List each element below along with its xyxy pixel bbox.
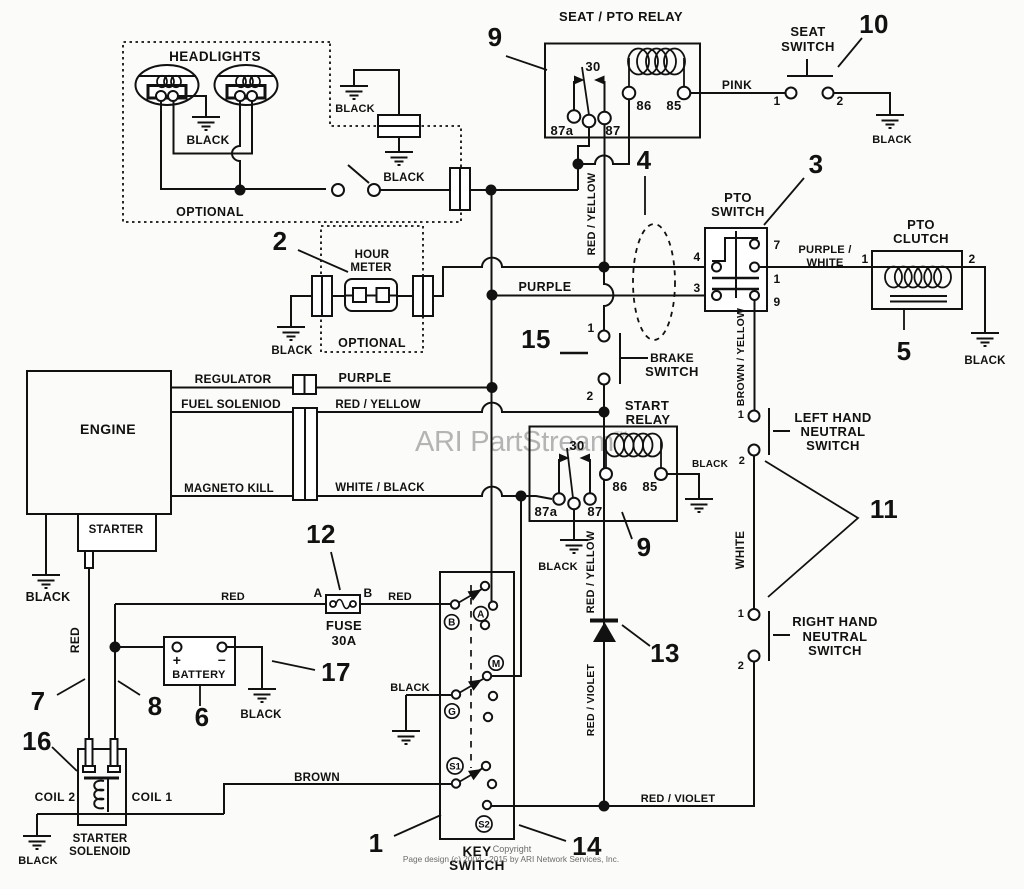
junction purple tap (487, 290, 498, 301)
svg-text:1: 1 (861, 252, 868, 266)
svg-text:BROWN / YELLOW: BROWN / YELLOW (735, 308, 747, 407)
svg-text:REGULATOR: REGULATOR (195, 372, 272, 386)
pto clutch coil (872, 267, 962, 288)
pointer 12 fuse (331, 552, 340, 590)
junction white/black M (516, 491, 527, 502)
svg-text:SWITCH: SWITCH (808, 643, 862, 658)
svg-text:87a: 87a (535, 504, 558, 519)
brake switch terminal 2 (599, 374, 610, 385)
svg-text:WHITE / BLACK: WHITE / BLACK (335, 482, 425, 494)
svg-text:2: 2 (836, 94, 843, 108)
left neutral switch lever (769, 408, 790, 455)
svg-text:PINK: PINK (722, 78, 752, 92)
svg-text:BLACK: BLACK (240, 709, 282, 721)
svg-text:4: 4 (693, 250, 700, 264)
wire switch to connector (380, 189, 450, 191)
svg-text:FUEL SOLENIOD: FUEL SOLENIOD (181, 397, 281, 411)
svg-text:RED / VIOLET: RED / VIOLET (641, 793, 716, 805)
svg-text:+: + (173, 652, 182, 668)
headlight lamp right (215, 65, 278, 105)
connector regulator (293, 375, 316, 394)
brake switch terminal 1 (599, 331, 610, 342)
wire start relay 30 to ground (573, 509, 575, 539)
svg-text:1: 1 (738, 608, 745, 620)
start relay coil (605, 434, 662, 469)
key switch spare contact 4 (488, 780, 496, 788)
pointer 5 clutch (903, 309, 905, 330)
svg-text:B: B (448, 618, 455, 629)
svg-text:10: 10 (859, 9, 889, 39)
wire right lamp hop over cross wire (232, 101, 240, 189)
right neutral switch terminal 1 (749, 609, 760, 620)
ground headlight black (192, 117, 220, 130)
seat relay coil (623, 49, 691, 100)
svg-text:–: – (218, 651, 226, 667)
svg-text:RELAY: RELAY (626, 412, 671, 427)
svg-text:BLACK: BLACK (538, 561, 578, 573)
svg-text:ENGINE: ENGINE (80, 421, 136, 437)
wire junction down to bus (577, 164, 579, 190)
svg-text:COIL 1: COIL 1 (132, 790, 173, 804)
pointer 6 battery (199, 686, 201, 706)
right neutral switch terminal 2 (749, 651, 760, 662)
svg-text:30A: 30A (331, 633, 356, 648)
svg-text:SWITCH: SWITCH (645, 364, 699, 379)
wire seat relay 86 jog with hop (578, 100, 629, 164)
wire headlight bus (161, 188, 326, 190)
svg-text:PURPLE: PURPLE (338, 371, 391, 385)
svg-text:BLACK: BLACK (383, 172, 425, 184)
key switch box (440, 572, 514, 839)
svg-text:S1: S1 (449, 762, 461, 773)
svg-text:A: A (313, 586, 322, 600)
svg-text:S2: S2 (478, 820, 490, 831)
svg-text:RIGHT HAND: RIGHT HAND (792, 614, 878, 629)
starter box (78, 514, 156, 551)
wire fuse to key switch B (360, 603, 451, 605)
wire S2 red/violet (491, 662, 754, 806)
svg-text:RED / YELLOW: RED / YELLOW (586, 172, 598, 255)
svg-text:SWITCH: SWITCH (806, 438, 860, 453)
hour meter body (345, 279, 397, 311)
svg-text:2: 2 (968, 252, 975, 266)
svg-text:WHITE: WHITE (735, 531, 747, 570)
key switch contact A (489, 602, 497, 610)
seat pto relay box (545, 44, 700, 138)
battery box (164, 637, 235, 685)
wire connector to junction (470, 189, 578, 191)
start relay terminal 86 (600, 468, 612, 480)
key switch contact B (451, 582, 489, 609)
harness dashed ellipse (4) (633, 224, 675, 340)
wire capacitor bottom lead (398, 137, 400, 151)
wire M up to white/black (491, 500, 521, 676)
wire purple to pto switch pin3 (497, 295, 707, 297)
svg-text:RED / YELLOW: RED / YELLOW (335, 399, 420, 411)
wire white between neutral switches (753, 456, 755, 609)
wire hour meter up and over to red/yellow (433, 258, 599, 296)
connector hour meter right (413, 276, 433, 316)
svg-text:1: 1 (587, 321, 594, 335)
key switch spare contact 1 (481, 621, 489, 629)
wire red/yellow brake drop with hop (604, 272, 613, 330)
key switch contact M (483, 672, 491, 680)
svg-text:15: 15 (521, 324, 551, 354)
pointer 7 starter wire (57, 679, 85, 695)
wire junction to battery plus (115, 646, 173, 648)
wire brown to key switch S1 (224, 784, 452, 814)
junction regulator purple (487, 382, 498, 393)
svg-text:17: 17 (321, 657, 351, 687)
svg-text:ARI PartStream™: ARI PartStream™ (415, 426, 628, 458)
svg-text:NEUTRAL: NEUTRAL (803, 629, 868, 644)
svg-text:WHITE: WHITE (806, 257, 843, 269)
wire seat relay 85 pink to seat switch (690, 92, 786, 94)
svg-text:6: 6 (195, 702, 210, 732)
pto switch pin 4 (712, 263, 721, 272)
wire pto 1 to clutch (759, 266, 872, 268)
wire seat switch to ground (834, 93, 891, 114)
wire brake 2 to relay 86 (603, 385, 605, 470)
wire left lamp terminal2 down and across (174, 101, 253, 154)
wire seat relay 87 down red/yellow (604, 124, 606, 262)
wire solenoid ground drop (36, 814, 38, 835)
solenoid post coil1 (108, 739, 120, 772)
key switch circled M (489, 656, 503, 670)
left neutral switch terminal 2 (749, 445, 760, 456)
svg-text:PURPLE /: PURPLE / (798, 244, 851, 256)
wire magneto white/black with hop (317, 487, 517, 496)
svg-text:87: 87 (605, 123, 620, 138)
svg-text:87a: 87a (551, 123, 574, 138)
svg-text:2: 2 (738, 660, 745, 672)
svg-text:SWITCH: SWITCH (711, 204, 765, 219)
svg-text:RED: RED (68, 627, 82, 653)
pto switch pin 9 (750, 291, 759, 300)
seat switch symbol (786, 59, 834, 99)
connector optional bus (450, 168, 470, 210)
svg-text:START: START (625, 398, 669, 413)
svg-text:7: 7 (773, 238, 780, 252)
connector hour meter left (312, 276, 332, 316)
svg-text:BLACK: BLACK (872, 134, 912, 146)
svg-text:OPTIONAL: OPTIONAL (338, 336, 406, 350)
wire battery minus to ground (227, 647, 263, 688)
svg-text:M: M (492, 659, 500, 670)
svg-text:30: 30 (585, 59, 600, 74)
key switch contact G (452, 679, 483, 699)
wire solenoid bottom bus (37, 813, 224, 815)
pointer 17 battery ground (272, 661, 315, 670)
solenoid post coil2 (83, 739, 95, 772)
brake switch lever (620, 333, 648, 384)
ground start relay 30 (560, 540, 588, 553)
svg-text:2: 2 (273, 226, 288, 256)
svg-text:SEAT: SEAT (790, 24, 825, 39)
wire fuel soleniod lead (171, 411, 293, 413)
optional hour meter dashed box (321, 226, 423, 352)
seat relay contact 30 arm (582, 67, 595, 127)
solenoid plunger bar (84, 777, 119, 780)
svg-text:BLACK: BLACK (390, 682, 430, 694)
pto switch pin 1 (750, 263, 759, 272)
svg-text:STARTER: STARTER (89, 524, 144, 536)
svg-text:RED: RED (388, 591, 412, 603)
ground engine (32, 575, 60, 588)
key switch circled S1 (447, 758, 463, 774)
svg-text:BLACK: BLACK (18, 855, 58, 867)
pointer 9 seat relay (506, 56, 547, 70)
start relay terminal 85 (655, 468, 667, 480)
start relay box (530, 427, 678, 522)
svg-text:30: 30 (569, 438, 584, 453)
svg-text:86: 86 (612, 479, 627, 494)
wire key switch G black lead (406, 694, 452, 696)
wire white/black junction to 87a (521, 496, 552, 499)
pointer 14 key switch (519, 825, 566, 841)
junction headlight bus (235, 185, 246, 196)
svg-text:5: 5 (897, 336, 912, 366)
svg-text:OPTIONAL: OPTIONAL (176, 205, 244, 219)
wire magneto kill lead (171, 495, 293, 497)
svg-text:9: 9 (637, 532, 652, 562)
pointer 8 battery wire (118, 681, 140, 695)
svg-text:G: G (448, 707, 456, 718)
ground capacitor bottom (385, 152, 413, 165)
battery minus terminal (218, 643, 227, 652)
svg-text:A: A (477, 610, 484, 621)
diode 13 (590, 621, 618, 643)
svg-text:MAGNETO KILL: MAGNETO KILL (184, 483, 274, 495)
svg-text:HOUR: HOUR (355, 249, 390, 261)
wire regulator lead (171, 387, 293, 389)
svg-text:7: 7 (31, 686, 46, 716)
wire seat relay 30 to junction (578, 127, 589, 164)
junction red violet (599, 801, 610, 812)
fuse 30A (326, 595, 360, 613)
ground seat switch (876, 115, 904, 128)
svg-text:Copyright: Copyright (493, 844, 532, 854)
key switch circled G (445, 704, 459, 718)
optional headlights dashed box (123, 42, 461, 222)
connector engine harness (293, 408, 317, 500)
svg-text:85: 85 (642, 479, 657, 494)
svg-text:11: 11 (870, 494, 898, 524)
ground key switch G (392, 731, 420, 744)
pointer 9 start relay (622, 512, 632, 539)
svg-text:BLACK: BLACK (964, 355, 1006, 367)
svg-text:NEUTRAL: NEUTRAL (801, 424, 866, 439)
svg-text:SEAT / PTO RELAY: SEAT / PTO RELAY (559, 9, 683, 24)
svg-text:9: 9 (488, 22, 503, 52)
key switch contact S1 (452, 762, 490, 788)
svg-text:87: 87 (587, 504, 602, 519)
key switch spare contact 2 (489, 692, 497, 700)
svg-text:PTO: PTO (724, 190, 752, 205)
key switch spare contact 3 (484, 713, 492, 721)
pto switch internal linkage (712, 231, 759, 298)
start relay contact 87a (553, 454, 569, 505)
pto switch box (705, 228, 767, 311)
pto clutch box (872, 251, 962, 309)
svg-text:1: 1 (369, 828, 384, 858)
wire engine ground lead (45, 514, 47, 574)
wire red/yellow junction to pto switch pin4 (609, 266, 707, 268)
wire fuel soleniod red/yellow with hop (317, 403, 600, 412)
pointer 15 dash (560, 352, 588, 355)
ground starter solenoid (23, 836, 51, 849)
svg-text:STARTER: STARTER (73, 833, 128, 845)
seat relay contact 87 (594, 76, 611, 125)
svg-text:Page design (c) 2004 - 2015 by: Page design (c) 2004 - 2015 by ARI Netwo… (403, 854, 619, 864)
svg-text:LEFT HAND: LEFT HAND (794, 410, 871, 425)
svg-text:8: 8 (148, 691, 163, 721)
headlight lamp left (136, 65, 199, 105)
wire hour meter right link (397, 295, 413, 297)
wire left lamp ground lead (178, 96, 206, 116)
svg-text:COIL 2: COIL 2 (35, 790, 76, 804)
svg-text:CLUTCH: CLUTCH (893, 231, 949, 246)
battery plus terminal (173, 643, 182, 652)
pointer 10 seat switch (838, 38, 862, 67)
wire regulator purple to main vertical (316, 387, 487, 389)
wire clutch to ground (962, 267, 985, 332)
svg-text:RED: RED (221, 591, 245, 603)
key switch dashed travel line (470, 585, 472, 768)
svg-text:BLACK: BLACK (187, 133, 230, 147)
svg-text:PTO: PTO (907, 217, 935, 232)
ground capacitor top (340, 86, 368, 99)
svg-text:FUSE: FUSE (326, 618, 362, 633)
start relay contact 30 arm (567, 448, 580, 509)
svg-text:METER: METER (350, 262, 392, 274)
pointer 2 hour meter (298, 250, 348, 272)
junction under seat relay (573, 159, 584, 170)
seat relay contact 87a (568, 76, 585, 123)
junction red/yellow fuel (599, 407, 610, 418)
ground battery (248, 689, 276, 702)
svg-text:86: 86 (636, 98, 651, 113)
wire starter red down (88, 568, 90, 739)
svg-text:1: 1 (738, 409, 745, 421)
wire start relay 85 to ground (667, 474, 699, 498)
pto clutch core (890, 296, 947, 302)
svg-text:BLACK: BLACK (692, 459, 729, 470)
key switch circled A (474, 607, 488, 621)
junction red/yellow pto4 (599, 262, 610, 273)
svg-text:2: 2 (739, 455, 746, 467)
svg-text:RED / YELLOW: RED / YELLOW (585, 530, 597, 613)
svg-text:1: 1 (773, 94, 780, 108)
pto switch pin 3 (712, 291, 721, 300)
ground start relay 85 (685, 499, 713, 512)
wire capacitor top lead (354, 70, 399, 115)
svg-text:PURPLE: PURPLE (518, 280, 571, 294)
wire hour meter left link (332, 295, 345, 297)
svg-text:85: 85 (666, 98, 681, 113)
pointer 13 diode (622, 625, 650, 646)
key switch circled B (445, 615, 459, 629)
wire main purple vertical (491, 190, 493, 601)
svg-text:3: 3 (693, 281, 700, 295)
svg-text:2: 2 (586, 389, 593, 403)
ground hour meter (277, 327, 305, 340)
svg-text:HEADLIGHTS: HEADLIGHTS (169, 49, 261, 64)
starter terminal stub (85, 551, 93, 568)
pto switch pin 7 (750, 240, 759, 249)
right neutral switch lever (769, 611, 790, 661)
wire battery red up and to fuse (115, 603, 326, 605)
pointer 11 V shape (765, 461, 858, 597)
svg-text:BRAKE: BRAKE (650, 351, 694, 365)
engine box (27, 371, 171, 514)
junction node main bus (486, 185, 497, 196)
pointer 3 pto switch (764, 178, 804, 225)
start relay contact 87 (580, 454, 596, 505)
left neutral switch terminal 1 (749, 411, 760, 422)
capacitor block (378, 115, 420, 137)
starter solenoid box (78, 749, 126, 825)
pointer 16 solenoid (52, 747, 77, 771)
ground pto clutch (971, 333, 999, 346)
key switch contact S2 (483, 801, 491, 809)
headlight switch (332, 165, 380, 196)
svg-text:BATTERY: BATTERY (172, 669, 226, 681)
pointer 4 harness (644, 176, 646, 215)
svg-text:4: 4 (637, 145, 652, 175)
svg-text:B: B (363, 586, 372, 600)
svg-text:BLACK: BLACK (335, 103, 375, 115)
wire red/yellow below relay (603, 480, 605, 802)
key switch circled S2 (476, 816, 492, 832)
svg-text:3: 3 (809, 149, 824, 179)
wire left lamp terminal1 down (160, 101, 162, 190)
wire battery positive drop (114, 604, 116, 739)
svg-text:BLACK: BLACK (271, 345, 313, 357)
pointer 1 key switch (394, 815, 441, 836)
svg-text:BLACK: BLACK (26, 590, 71, 604)
svg-text:9: 9 (773, 295, 780, 309)
wire hour meter ground lead (291, 296, 312, 326)
svg-text:SWITCH: SWITCH (781, 39, 835, 54)
solenoid coil spring (94, 781, 104, 809)
solenoid core line (107, 778, 109, 812)
junction battery positive (110, 642, 121, 653)
svg-text:16: 16 (22, 726, 52, 756)
svg-text:12: 12 (306, 519, 336, 549)
svg-text:SOLENOID: SOLENOID (69, 846, 131, 858)
svg-text:1: 1 (773, 272, 780, 286)
wire key G ground drop (405, 695, 407, 730)
svg-text:13: 13 (650, 638, 680, 668)
svg-text:RED / VIOLET: RED / VIOLET (585, 664, 597, 737)
svg-text:BROWN: BROWN (294, 772, 340, 784)
wire pto 9 brown/yellow down (754, 300, 756, 411)
